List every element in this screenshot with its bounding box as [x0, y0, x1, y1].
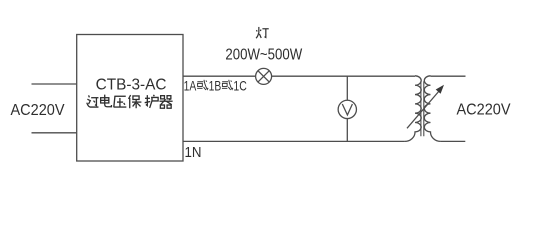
wire top: box to lamp	[183, 75, 256, 77]
voltmeter V mark	[342, 104, 352, 115]
svg-text:1A: 1A	[184, 78, 197, 94]
svg-text:1N: 1N	[185, 144, 202, 161]
variac arrow shaft	[407, 91, 440, 129]
svg-text:1B: 1B	[209, 78, 222, 94]
svg-text:AC220V: AC220V	[11, 102, 65, 119]
svg-text:1C: 1C	[233, 78, 246, 94]
label 灯	[256, 27, 269, 38]
svg-text:AC220V: AC220V	[457, 102, 511, 119]
wire left top	[32, 83, 77, 85]
label 1A或1B或1C	[197, 80, 233, 90]
svg-text:200W~500W: 200W~500W	[225, 47, 303, 64]
wire right bottom	[441, 140, 465, 142]
voltmeter V circle	[338, 100, 356, 118]
transformer T1 secondary winding	[424, 76, 441, 142]
label 过电压保护器	[87, 95, 173, 109]
svg-text:CTB-3-AC: CTB-3-AC	[96, 77, 167, 94]
lamp cross	[258, 71, 269, 82]
transformer core	[421, 81, 424, 136]
wire top: lamp to transformer	[272, 75, 415, 77]
wire right top	[431, 75, 466, 77]
variac arrow head	[436, 85, 444, 94]
wire voltmeter top	[346, 76, 348, 100]
lamp EL circle	[256, 68, 272, 84]
wire left bottom	[32, 132, 77, 134]
protector box CTB-3-AC	[77, 35, 183, 162]
transformer T1 primary winding	[405, 76, 422, 142]
wire bottom 1N	[183, 140, 405, 142]
wire voltmeter bottom	[346, 119, 348, 142]
